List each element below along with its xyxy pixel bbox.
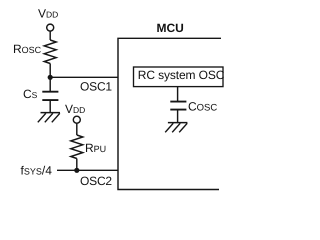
wire OSC1 to MCU (50, 76, 118, 78)
power VDD (top) (47, 24, 54, 40)
svg-text:fSYS/4: fSYS/4 (21, 164, 53, 178)
wire Cs to ground (49, 100, 51, 113)
svg-text:COSC: COSC (188, 100, 217, 114)
svg-text:MCU: MCU (157, 21, 184, 35)
svg-text:RPU: RPU (85, 141, 106, 155)
wire RPU to node OSC2 (76, 159, 78, 171)
ground (COSC) (165, 123, 187, 133)
capacitor COSC (170, 102, 186, 110)
resistor ROSC (44, 40, 56, 64)
wire block to capacitor COSC (177, 87, 179, 102)
svg-text:CS: CS (23, 87, 38, 101)
resistor RPU (71, 135, 83, 159)
block RC system OSC (134, 67, 224, 87)
svg-text:OSC1: OSC1 (80, 80, 112, 94)
svg-text:VDD: VDD (65, 102, 85, 116)
svg-text:ROSC: ROSC (13, 42, 42, 56)
node junction (OSC2 net) (74, 168, 79, 173)
power VDD (lower) (73, 116, 80, 135)
svg-text:OSC2: OSC2 (80, 174, 112, 188)
MCU box (118, 38, 221, 189)
svg-text:VDD: VDD (38, 6, 58, 20)
ground (Cs) (38, 113, 60, 123)
wire resistor to node OSC1 (49, 64, 51, 78)
wire COSC to ground (177, 110, 179, 123)
wire node to capacitor Cs (49, 77, 51, 91)
svg-text:RC system OSC: RC system OSC (138, 68, 225, 82)
capacitor Cs (42, 92, 58, 100)
node junction (OSC1 net) (48, 75, 53, 80)
wire fSYS/4 to MCU OSC2 (57, 169, 118, 171)
